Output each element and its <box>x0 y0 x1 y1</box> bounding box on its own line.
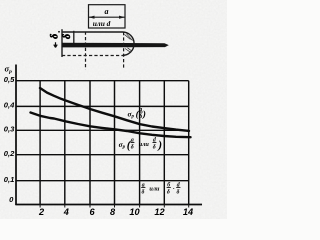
svg-text:δ: δ <box>167 190 170 196</box>
lower plate black bar <box>62 43 169 48</box>
svg-text:): ) <box>142 109 146 120</box>
svg-text:δ: δ <box>153 144 156 150</box>
svg-text:8: 8 <box>110 207 116 217</box>
weld rounded end arc <box>122 32 134 55</box>
dashed slot projection verticals <box>85 32 87 70</box>
svg-text:·: · <box>173 187 175 193</box>
svg-text:6: 6 <box>89 207 95 217</box>
svg-text:δ: δ <box>177 190 180 196</box>
svg-text:или d: или d <box>93 19 111 28</box>
svg-text:0,2: 0,2 <box>4 149 15 158</box>
dimension arrows on rule <box>89 16 126 19</box>
upper curve <box>40 88 189 131</box>
y axis <box>15 65 17 206</box>
svg-text:a: a <box>105 7 109 16</box>
short inner vertical <box>73 31 75 45</box>
svg-text:0,1: 0,1 <box>4 175 15 184</box>
svg-text:0,4: 0,4 <box>4 101 15 110</box>
x axis <box>15 204 202 206</box>
svg-text:или: или <box>139 141 150 148</box>
curve label 1: sigma_p(a/delta) <box>128 107 146 120</box>
svg-text:2: 2 <box>38 207 45 217</box>
curve label 2: sigma_p(a/delta или d/delta) <box>119 137 163 151</box>
svg-text:δ: δ <box>131 144 134 150</box>
y axis labels <box>4 75 15 204</box>
svg-text:или: или <box>149 185 160 192</box>
grid horizontal lines <box>16 81 189 181</box>
svg-text:4: 4 <box>63 207 69 217</box>
hatch in weld crescent <box>125 34 133 53</box>
paper scan speckle <box>0 0 227 219</box>
svg-text:0,3: 0,3 <box>4 125 15 134</box>
bottom hidden edge (dashed) <box>62 55 127 57</box>
svg-text:δ: δ <box>139 114 142 120</box>
lower curve <box>31 113 191 138</box>
x axis labels <box>38 207 193 217</box>
svg-text:12: 12 <box>154 207 165 217</box>
svg-text:10: 10 <box>129 207 140 217</box>
left end vertical <box>61 29 63 57</box>
x axis ticks <box>40 205 189 208</box>
dimension box "a / или d" <box>89 5 126 28</box>
svg-text:δ: δ <box>62 34 73 39</box>
svg-text:δ: δ <box>142 190 145 196</box>
svg-text:δ: δ <box>50 34 61 39</box>
svg-text:0,5: 0,5 <box>4 75 15 84</box>
small dimension arrow under delta <box>54 42 57 47</box>
grid vertical lines <box>40 81 189 205</box>
svg-text:14: 14 <box>183 207 193 217</box>
svg-text:): ) <box>157 139 162 151</box>
x axis title: a/delta или b/delta . d/delta <box>141 181 180 195</box>
side view: upper plate top edge <box>62 31 123 33</box>
